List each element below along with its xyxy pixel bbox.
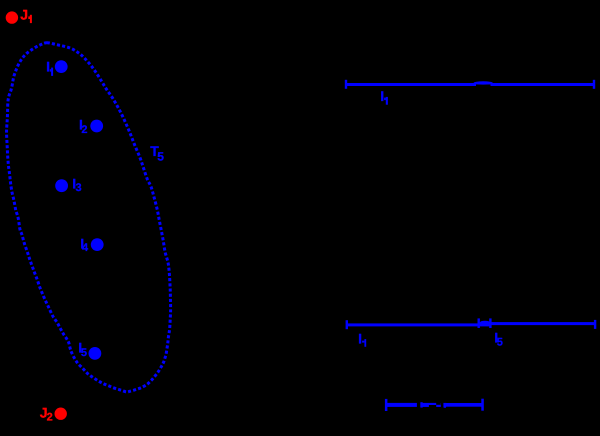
svg-text:2: 2	[81, 124, 87, 136]
label I2 (graph)	[79, 116, 88, 136]
interval I3 (bottom-right segment)	[420, 399, 484, 411]
label J1	[20, 6, 32, 23]
overlap sliver above interval I1	[474, 81, 493, 84]
vertex J1	[6, 11, 18, 23]
label J2	[40, 405, 53, 424]
svg-text:I: I	[358, 331, 362, 347]
label I5 (graph)	[78, 340, 87, 360]
svg-text:5: 5	[497, 337, 503, 349]
overlap notches on bottom segments	[417, 402, 444, 408]
svg-text:4: 4	[82, 242, 89, 254]
ellipse T5 (dotted region boundary)	[7, 43, 171, 392]
interval I2 (bottom-left segment)	[385, 399, 446, 411]
label I4 (interval)	[358, 331, 366, 347]
svg-text:5: 5	[157, 149, 164, 163]
vertex I5	[89, 347, 102, 360]
interval I5 (middle-right segment)	[478, 318, 597, 329]
label I3 (graph)	[72, 175, 81, 194]
label I5 (interval)	[494, 329, 503, 348]
vertex J2	[55, 408, 67, 420]
vertex I4	[91, 238, 104, 251]
vertex I2	[90, 120, 103, 133]
label I4 (graph)	[80, 235, 89, 254]
overlap sliver above interval I5	[480, 321, 490, 324]
svg-text:5: 5	[81, 347, 87, 359]
label I1 (graph)	[46, 58, 53, 76]
vertex I1	[55, 60, 68, 73]
label T5	[150, 143, 164, 163]
vertex I3	[55, 179, 68, 192]
svg-text:3: 3	[76, 182, 82, 194]
interval I1 (top segment)	[345, 80, 595, 89]
svg-text:2: 2	[47, 412, 53, 424]
overlap notch on interval I1	[476, 84, 491, 86]
svg-text:I: I	[380, 88, 384, 104]
svg-text:I: I	[46, 58, 50, 74]
label I1 (interval)	[380, 88, 388, 105]
svg-text:J: J	[20, 6, 28, 22]
interval I4 (middle-left segment)	[346, 318, 492, 329]
